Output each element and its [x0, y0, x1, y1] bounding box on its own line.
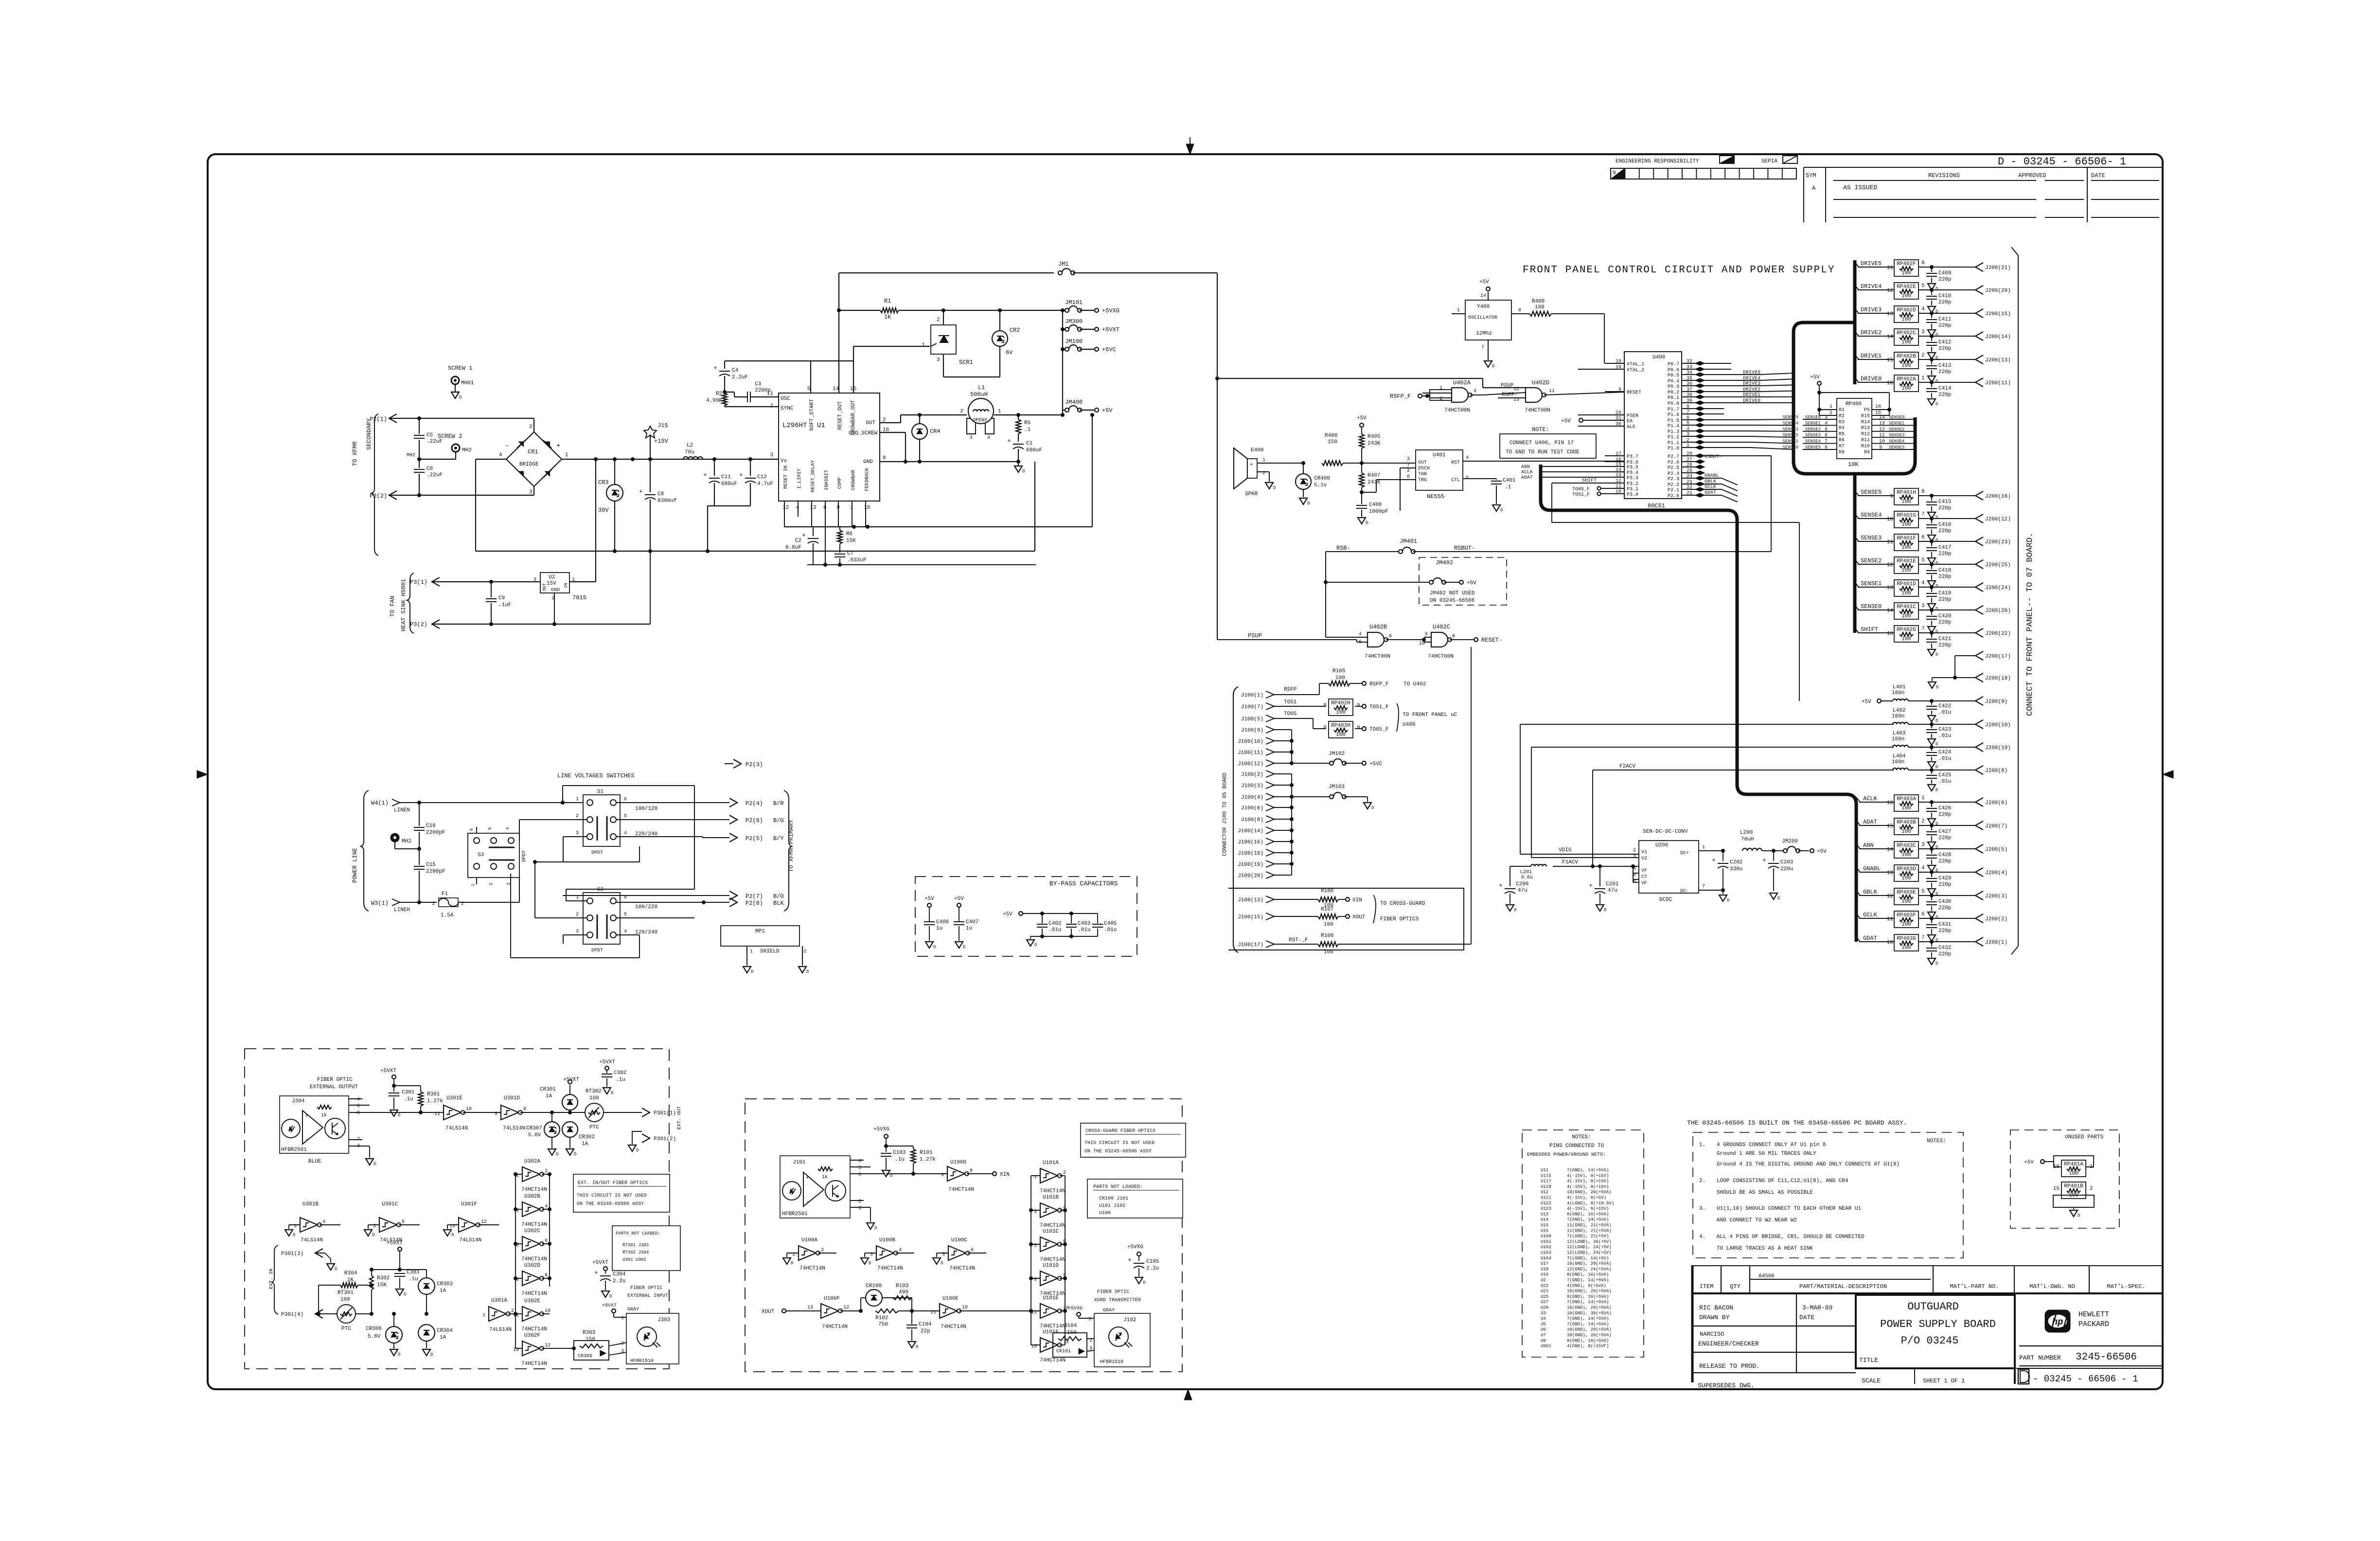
- svg-text:5.1v: 5.1v: [1314, 483, 1327, 488]
- svg-text:1: 1: [1457, 308, 1460, 313]
- svg-text:A4506: A4506: [1758, 1273, 1775, 1279]
- alignment arrow right: [2163, 770, 2173, 778]
- svg-text:CR2: CR2: [1010, 327, 1020, 334]
- svg-text:1u: 1u: [966, 926, 972, 932]
- svg-text:HEAT SINK HS001: HEAT SINK HS001: [400, 579, 407, 631]
- svg-text:+: +: [639, 488, 643, 495]
- svg-text:12: 12: [545, 1343, 551, 1348]
- svg-text:SENSE5: SENSE5: [1861, 489, 1882, 496]
- svg-text:D: D: [1936, 607, 1938, 611]
- capacitor C401 .1: [1463, 478, 1516, 513]
- svg-text:100: 100: [1901, 852, 1911, 858]
- svg-text:C15: C15: [426, 862, 436, 868]
- svg-text:13: 13: [1887, 585, 1893, 591]
- svg-text:J200(2): J200(2): [1985, 916, 2007, 922]
- svg-text:J100(3): J100(3): [1241, 783, 1263, 789]
- svg-text:SHOULD BE AS SMALL AS POSSIBLE: SHOULD BE AS SMALL AS POSSIBLE: [1717, 1190, 1813, 1196]
- svg-text:16: 16: [1887, 380, 1893, 386]
- svg-text:100: 100: [1324, 922, 1333, 928]
- svg-text:U400: U400: [1652, 355, 1665, 360]
- svg-text:U3: U3: [1541, 1311, 1546, 1316]
- svg-text:REVISIONS: REVISIONS: [1928, 172, 1960, 179]
- svg-text:100: 100: [1901, 568, 1911, 573]
- net TO51: [1274, 699, 1326, 706]
- label FIBER OPTIC XGRD TRANSMITTER: [1094, 1290, 1141, 1303]
- svg-text:D: D: [1307, 501, 1310, 506]
- svg-text:.01u: .01u: [1078, 927, 1090, 933]
- thick bus DRIVE vertical: [1853, 260, 1857, 384]
- svg-text:1.27k: 1.27k: [427, 1098, 443, 1104]
- svg-text:4: 4: [624, 929, 627, 934]
- svg-text:220p: 220p: [1938, 905, 1951, 911]
- svg-text:J200(17): J200(17): [1985, 654, 2011, 660]
- svg-text:6: 6: [1407, 474, 1410, 480]
- svg-text:SHIFT: SHIFT: [1861, 626, 1878, 633]
- svg-text:+5V: +5V: [1479, 279, 1489, 285]
- svg-text:220p: 220p: [1938, 574, 1951, 580]
- svg-text:U123: U123: [1541, 1206, 1551, 1211]
- svg-text:QTY: QTY: [1730, 1283, 1741, 1290]
- thick bus ANN to ACLK path: [1541, 465, 1856, 942]
- svg-text:220p: 220p: [1938, 392, 1951, 398]
- terminal +5VXT C301: [380, 1068, 396, 1092]
- svg-text:+: +: [1589, 882, 1593, 889]
- resistor pack RP403E row GBLK: [1856, 888, 2007, 920]
- svg-text:GRAY: GRAY: [627, 1307, 639, 1312]
- svg-text:FIBER OPTIC: FIBER OPTIC: [317, 1077, 353, 1083]
- svg-text:7: 7: [1921, 626, 1925, 632]
- svg-text:14: 14: [1480, 293, 1486, 299]
- wire RSBUT-: [1702, 454, 1771, 552]
- svg-text:1: 1: [750, 949, 753, 954]
- svg-text:7815: 7815: [572, 594, 586, 601]
- svg-text:C427: C427: [1938, 829, 1951, 835]
- thermistor RT302 100: [585, 1089, 604, 1130]
- wire OUT to L1: [880, 413, 967, 423]
- svg-text:+5VXG: +5VXG: [1102, 307, 1119, 314]
- rect outline J100 xin xout group: [1228, 888, 1464, 950]
- svg-text:U25: U25: [1541, 1294, 1548, 1299]
- svg-text:5: 5: [357, 1104, 360, 1109]
- inductor L1 500uH OPENS: [960, 384, 1001, 441]
- svg-text:+5V: +5V: [954, 896, 964, 902]
- unused parts RP401A RP401B: [2010, 1130, 2119, 1228]
- inductor L404 160n row J200(8): [1799, 753, 2007, 792]
- svg-text:4(-15V), 8(+15V): 4(-15V), 8(+15V): [1567, 1179, 1609, 1184]
- svg-text:10: 10: [1879, 439, 1885, 445]
- capacitor C7 .033uF: [835, 551, 867, 565]
- svg-text:J200(9): J200(9): [1985, 699, 2007, 705]
- svg-text:R11: R11: [1861, 438, 1870, 443]
- svg-text:J200(4): J200(4): [1985, 870, 2007, 876]
- svg-text:7: 7: [1825, 439, 1828, 445]
- svg-text:D: D: [1936, 742, 1938, 747]
- svg-text:CR307: CR307: [526, 1126, 542, 1131]
- svg-text:10(GND), 30(+5VA): 10(GND), 30(+5VA): [1567, 1311, 1612, 1316]
- svg-text:U4: U4: [1541, 1316, 1546, 1321]
- svg-text:U302D: U302D: [524, 1263, 540, 1269]
- svg-text:L2: L2: [687, 443, 693, 448]
- wire PSEN ALE stubs: [1578, 415, 1624, 426]
- svg-text:16: 16: [1887, 800, 1893, 806]
- svg-text:J100(20): J100(20): [1238, 873, 1263, 879]
- svg-text:9: 9: [1425, 632, 1428, 637]
- jumper JM103: [1292, 784, 1374, 810]
- inverter U101E 74HCT14N: [1031, 1295, 1069, 1329]
- svg-text:D: D: [806, 969, 809, 974]
- svg-text:4 GROUNDS CONNECT ONLY AT U1 p: 4 GROUNDS CONNECT ONLY AT U1 pin 8: [1717, 1142, 1826, 1148]
- svg-text:RESET IN: RESET IN: [783, 466, 789, 489]
- svg-text:22p: 22p: [921, 1328, 930, 1334]
- svg-text:D: D: [963, 945, 965, 950]
- svg-text:P3.3: P3.3: [1627, 476, 1638, 481]
- svg-text:+5V: +5V: [2024, 1160, 2034, 1165]
- svg-text:P2.2: P2.2: [1668, 483, 1679, 488]
- svg-text:30V: 30V: [598, 507, 609, 514]
- nand gate U402B: [1326, 607, 1424, 660]
- svg-text:SENSE4: SENSE4: [1861, 512, 1882, 519]
- fiber receiver J101 HFBR2501: [780, 1156, 886, 1231]
- svg-text:MH2: MH2: [407, 453, 415, 458]
- svg-text:J100(2): J100(2): [1241, 772, 1263, 778]
- inverter U302A 74HCT14N: [515, 1159, 550, 1193]
- svg-text:L1: L1: [978, 384, 985, 391]
- svg-text:P1.2: P1.2: [1668, 435, 1679, 440]
- svg-text:8: 8: [1323, 703, 1327, 709]
- svg-text:1: 1: [432, 901, 435, 907]
- fiber transmitter J102 HFBR1510: [1068, 1306, 1150, 1367]
- svg-text:CONNECTOR J100 TO 05 BOARD: CONNECTOR J100 TO 05 BOARD: [1222, 772, 1228, 856]
- svg-text:100: 100: [1901, 899, 1911, 905]
- svg-text:J200(14): J200(14): [1985, 334, 2011, 340]
- svg-text:U100B: U100B: [879, 1237, 895, 1243]
- svg-text:ADAT: ADAT: [1521, 475, 1533, 481]
- capacitor C304 2.2u: [592, 1260, 626, 1299]
- svg-text:RESET: RESET: [1627, 390, 1641, 395]
- svg-text:P301(1): P301(1): [654, 1111, 676, 1116]
- svg-text:2: 2: [576, 814, 579, 819]
- jumper JM1: [1058, 261, 1217, 275]
- svg-text:C418: C418: [1938, 568, 1951, 573]
- svg-text:2: 2: [529, 424, 533, 430]
- svg-text:R302: R302: [377, 1275, 390, 1281]
- resistor R5 .1: [1016, 415, 1031, 442]
- svg-text:14: 14: [1887, 847, 1894, 853]
- revision strip cells: [1611, 168, 1796, 179]
- svg-text:RESET_DELAY: RESET_DELAY: [811, 460, 816, 492]
- dashed box ext in/out fiber optics: [245, 1049, 669, 1369]
- label TO FRONT PANEL uC: [1397, 703, 1457, 732]
- svg-text:XIN: XIN: [1000, 1172, 1010, 1178]
- svg-text:B/Y: B/Y: [773, 835, 784, 842]
- svg-text:7: 7: [1481, 345, 1484, 350]
- net TO05: [1274, 711, 1326, 729]
- svg-text:U160: U160: [1541, 1234, 1551, 1239]
- svg-text:11: 11: [1879, 433, 1885, 438]
- svg-text:CR3: CR3: [598, 479, 609, 486]
- svg-text:74LS14N: 74LS14N: [445, 1126, 468, 1131]
- svg-text:8: 8: [1452, 634, 1455, 639]
- jumper JM200 +5V: [1782, 839, 1827, 855]
- svg-text:C303: C303: [407, 1270, 419, 1275]
- svg-text:74HCT14N: 74HCT14N: [1040, 1324, 1066, 1329]
- svg-text:+5VXG: +5VXG: [1068, 1306, 1083, 1311]
- svg-text:SYNC: SYNC: [781, 406, 794, 412]
- svg-text:7: 7: [1407, 463, 1410, 468]
- svg-text:J200(21): J200(21): [1985, 265, 2011, 271]
- J200 bracket line: [2011, 247, 2018, 954]
- svg-text:5.6V: 5.6V: [368, 1334, 381, 1340]
- capacitor C9 .1uF: [486, 582, 511, 626]
- svg-text:100: 100: [2069, 1193, 2078, 1199]
- svg-text:13: 13: [810, 505, 816, 511]
- svg-text:+5VC: +5VC: [1102, 346, 1116, 353]
- svg-text:3: 3: [970, 435, 973, 441]
- switch S1 DPDT: [576, 789, 627, 856]
- resistor pack RP401D row SENSE1: [1855, 580, 2011, 611]
- svg-text:8: 8: [1921, 489, 1925, 495]
- svg-text:THIS CIRCUIT IS NOT USED: THIS CIRCUIT IS NOT USED: [1084, 1141, 1154, 1146]
- svg-text:J100(15): J100(15): [1238, 914, 1263, 920]
- svg-text:9: 9: [1890, 494, 1893, 500]
- svg-text:1: 1: [998, 409, 1001, 414]
- svg-text:J303: J303: [657, 1317, 670, 1323]
- wire U101 input bus: [1030, 1176, 1033, 1345]
- svg-text:U28: U28: [1541, 1306, 1548, 1310]
- svg-text:1.27k: 1.27k: [920, 1157, 936, 1163]
- oscillator Y400: [1452, 279, 1529, 369]
- svg-text:VDIS: VDIS: [1559, 847, 1572, 853]
- svg-text:+5V: +5V: [1561, 418, 1571, 424]
- svg-text:R1: R1: [884, 298, 891, 305]
- resistor pack RP403D row GNABL: [1856, 865, 2007, 896]
- svg-text:XGRD TRANSMITTER: XGRD TRANSMITTER: [1094, 1298, 1141, 1303]
- svg-text:C11: C11: [721, 474, 731, 480]
- svg-text:J102: J102: [1123, 1317, 1136, 1323]
- svg-text:NOTES:: NOTES:: [1927, 1138, 1946, 1144]
- capacitor C303 .1u: [394, 1268, 419, 1297]
- svg-text:D: D: [373, 1162, 376, 1166]
- svg-text:XOUT: XOUT: [1352, 914, 1366, 920]
- inductor L200 70uH: [1740, 830, 1785, 853]
- svg-text:SCREW 1: SCREW 1: [448, 365, 472, 372]
- svg-text:P301(2): P301(2): [654, 1136, 676, 1142]
- svg-text:J200(23): J200(23): [1985, 539, 2011, 545]
- svg-text:ON 03245-66506: ON 03245-66506: [1430, 598, 1474, 604]
- svg-text:100: 100: [1336, 732, 1346, 738]
- svg-text:D: D: [1936, 333, 1938, 338]
- svg-text:D: D: [404, 1292, 406, 1297]
- svg-text:SUPERSEDES DWG.: SUPERSEDES DWG.: [1698, 1382, 1755, 1389]
- svg-text:D: D: [1514, 908, 1516, 913]
- svg-text:F2ACV: F2ACV: [1619, 764, 1635, 770]
- wires U400 P1 to SENSE bus: [1702, 409, 1794, 449]
- svg-text:D: D: [1022, 469, 1025, 474]
- svg-text:1.: 1.: [1699, 1142, 1705, 1148]
- svg-text:DRAWN BY: DRAWN BY: [1699, 1314, 1730, 1321]
- svg-text:C420: C420: [1938, 613, 1951, 619]
- svg-text:CTL: CTL: [1451, 478, 1460, 483]
- svg-text:1K: 1K: [884, 314, 891, 321]
- svg-text:RESET_OUT: RESET_OUT: [837, 401, 843, 430]
- svg-text:6: 6: [1921, 912, 1925, 917]
- svg-text:2200pF: 2200pF: [426, 830, 445, 836]
- svg-text:RSFP_F: RSFP_F: [1369, 681, 1389, 687]
- svg-text:6: 6: [545, 1238, 548, 1244]
- svg-text:4(GND), 8(+5VA): 4(GND), 8(+5VA): [1567, 1283, 1606, 1288]
- svg-text:1: 1: [621, 1316, 624, 1321]
- svg-text:+5VXT: +5VXT: [602, 1303, 617, 1308]
- svg-text:7(LGND), 21(+5V): 7(LGND), 21(+5V): [1567, 1234, 1609, 1239]
- wire U2 IN: [569, 459, 596, 582]
- resistor R104 150 CR101: [1053, 1323, 1113, 1357]
- svg-text:C431: C431: [1938, 922, 1952, 928]
- svg-text:4.99K: 4.99K: [706, 398, 722, 404]
- svg-text:2200p: 2200p: [755, 388, 771, 394]
- svg-text:SENSE5: SENSE5: [1805, 445, 1821, 450]
- svg-text:U302C: U302C: [524, 1228, 540, 1234]
- svg-text:U200: U200: [1655, 842, 1668, 848]
- svg-text:MH2: MH2: [402, 839, 411, 844]
- svg-text:P2.7: P2.7: [1668, 454, 1679, 460]
- svg-text:9: 9: [1357, 725, 1360, 731]
- connector J200(18): [1928, 673, 2011, 690]
- svg-text:10: 10: [1887, 940, 1893, 946]
- svg-text:3: 3: [1921, 329, 1925, 335]
- svg-text:OUT: OUT: [1418, 460, 1427, 466]
- resistor pack RP401C row SENSE0: [1855, 603, 2011, 634]
- inductor L402 160n row J200(10): [1799, 708, 2011, 747]
- svg-text:J200(19): J200(19): [1985, 745, 2011, 751]
- svg-text:15: 15: [1887, 824, 1893, 829]
- svg-text:P3.2: P3.2: [1627, 482, 1638, 487]
- svg-text:3: 3: [1089, 1346, 1092, 1351]
- svg-text:D: D: [1936, 287, 1938, 291]
- svg-text:3: 3: [621, 1349, 624, 1354]
- svg-text:D: D: [1936, 718, 1938, 723]
- svg-text:1: 1: [576, 797, 579, 802]
- svg-text:P0.1: P0.1: [1668, 395, 1679, 401]
- svg-text:U400: U400: [1403, 722, 1415, 728]
- svg-text:2: 2: [1439, 396, 1442, 402]
- svg-text:2200pF: 2200pF: [426, 869, 445, 875]
- svg-text:8(GND), 16(+5VA): 8(GND), 16(+5VA): [1567, 1294, 1609, 1299]
- svg-text:15K: 15K: [377, 1282, 387, 1288]
- svg-text:74HCT14N: 74HCT14N: [877, 1266, 903, 1272]
- inverter U100D 74HCT14N: [941, 1160, 1010, 1193]
- svg-text:FRONT PANEL CONTROL CIRCUIT AN: FRONT PANEL CONTROL CIRCUIT AND POWER SU…: [1523, 265, 1835, 276]
- svg-text:RSFP_F: RSFP_F: [1390, 393, 1411, 400]
- resistor pack RP400 10K: [1783, 375, 1915, 468]
- svg-text:POWER LINE: POWER LINE: [352, 848, 358, 883]
- svg-text:J200(8): J200(8): [1985, 768, 2007, 774]
- svg-text:EXTERNAL INPUT: EXTERNAL INPUT: [627, 1293, 668, 1299]
- svg-text:U101D: U101D: [1043, 1263, 1059, 1269]
- svg-text:DRIVE0: DRIVE0: [1743, 398, 1760, 404]
- svg-text:W4(1): W4(1): [371, 800, 389, 806]
- wires J100 9-12 bus: [1274, 730, 1332, 765]
- svg-text:U100C: U100C: [951, 1237, 967, 1243]
- svg-text:C400: C400: [1369, 502, 1382, 508]
- svg-text:TOS1_F: TOS1_F: [1572, 492, 1590, 498]
- wire U401 RST to U400: [1463, 461, 1624, 462]
- svg-text:220p: 220p: [1938, 323, 1951, 329]
- svg-text:100: 100: [1901, 591, 1911, 596]
- svg-text:.22uF: .22uF: [426, 439, 443, 445]
- svg-text:R10: R10: [1861, 444, 1870, 449]
- svg-text:A: A: [1812, 185, 1816, 192]
- svg-text:2: 2: [545, 1169, 548, 1174]
- svg-text:D: D: [1936, 515, 1938, 520]
- jumper JM401: [1326, 538, 1771, 554]
- svg-text:3: 3: [1825, 415, 1828, 420]
- svg-text:D: D: [398, 1113, 400, 1118]
- speaker E400: [1234, 448, 1303, 497]
- border frame: [208, 154, 2163, 1389]
- alignment arrow top: [1186, 137, 1194, 155]
- voltage regulator U1 L296HT: [767, 386, 889, 511]
- svg-text:10(GND), 20(+5VA): 10(GND), 20(+5VA): [1567, 1306, 1612, 1310]
- svg-text:15K: 15K: [846, 538, 856, 544]
- svg-text:EXTERNAL OUTPUT: EXTERNAL OUTPUT: [310, 1084, 358, 1090]
- svg-text:P301(3): P301(3): [281, 1251, 303, 1257]
- svg-text:DPDT: DPDT: [591, 948, 603, 953]
- capacitor C302 .1u: [599, 1059, 626, 1095]
- fiber receiver J304 HFBR2501: [280, 1096, 360, 1165]
- svg-text:CONNECT U400, PIN 17: CONNECT U400, PIN 17: [1510, 440, 1574, 446]
- svg-text:74HCT14N: 74HCT14N: [822, 1324, 848, 1330]
- svg-text:C406: C406: [936, 919, 949, 925]
- svg-text:160n: 160n: [1892, 714, 1904, 719]
- svg-text:4: 4: [858, 1159, 861, 1164]
- svg-text:10: 10: [864, 505, 870, 511]
- svg-text:.1u: .1u: [616, 1077, 625, 1083]
- svg-text:1: 1: [1088, 1317, 1091, 1322]
- svg-text:1: 1: [1921, 376, 1925, 381]
- svg-text:D: D: [1366, 520, 1368, 525]
- svg-text:P2.6: P2.6: [1668, 460, 1679, 466]
- svg-text:L403: L403: [1893, 731, 1905, 736]
- svg-text:3: 3: [1474, 389, 1476, 394]
- resistor pack RP403B row ADAT: [1856, 818, 2007, 850]
- svg-text:7(GND), 14(+5VA): 7(GND), 14(+5VA): [1567, 1218, 1609, 1222]
- resistor pack RP402B row DRIVE1: [1855, 352, 2011, 384]
- svg-text:220p: 220p: [1938, 620, 1951, 626]
- terminal +5V EA: [1561, 418, 1624, 424]
- inverter U302B 74HCT14N: [515, 1194, 550, 1228]
- wire S1 top loop: [563, 786, 694, 901]
- svg-text:D: D: [636, 1148, 639, 1153]
- svg-text:D: D: [1727, 898, 1729, 903]
- svg-text:2: 2: [803, 949, 806, 954]
- svg-text:100: 100: [1901, 922, 1911, 928]
- svg-text:74HCT14N: 74HCT14N: [949, 1266, 975, 1272]
- svg-text:CR1: CR1: [528, 448, 538, 455]
- svg-text:THE 03245-66506 IS BUILT ON TH: THE 03245-66506 IS BUILT ON THE 03458-66…: [1687, 1119, 1907, 1127]
- svg-text:RSB-: RSB-: [1336, 545, 1350, 552]
- svg-text:J200(5): J200(5): [1985, 847, 2007, 853]
- svg-text:100/120: 100/120: [635, 806, 657, 812]
- net RSFP: [1274, 683, 1329, 695]
- svg-text:8: 8: [523, 1107, 526, 1112]
- svg-text:D: D: [1936, 584, 1938, 589]
- svg-text:10: 10: [1887, 631, 1893, 637]
- svg-text:U121: U121: [1541, 1196, 1551, 1201]
- svg-text:1000pF: 1000pF: [1369, 509, 1388, 515]
- resistor R303 150 CR305: [550, 1330, 626, 1360]
- svg-text:CROWBAR: CROWBAR: [851, 470, 856, 490]
- wire C2 C7 bottom: [807, 563, 1036, 567]
